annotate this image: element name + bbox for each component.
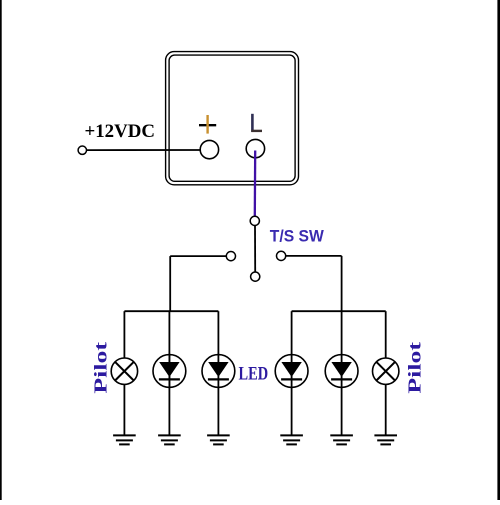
- ground G5: [330, 435, 353, 444]
- LED D3: [275, 355, 308, 388]
- wire pilot lamp DS1 lower lead: [123, 384, 125, 435]
- L terminal marking: [251, 114, 262, 132]
- wire LED D4 lead: [341, 311, 343, 435]
- switch S1 right throw contact: [277, 251, 286, 260]
- pilot lamp DS1 (circle with X): [111, 358, 137, 384]
- ground G4: [280, 435, 303, 444]
- LED D1: [153, 355, 186, 388]
- LED D4: [325, 355, 358, 388]
- + terminal marking (gold vertical, black horizontal): [199, 115, 216, 134]
- wire left throw horizontal: [170, 255, 226, 257]
- terminal L (pin circle): [246, 139, 264, 157]
- pilot lamp DS2 (circle with X): [373, 358, 399, 384]
- wire pilot lamp DS2 upper lead: [385, 311, 387, 358]
- node +12VDC input terminal (open circle): [78, 146, 86, 154]
- ground G3: [207, 435, 230, 444]
- ground G6: [374, 435, 397, 444]
- wire left bus: [124, 310, 218, 312]
- switch S1 T/S SW pole wire: [254, 225, 256, 272]
- ground G2: [158, 435, 181, 444]
- wire right throw drop: [341, 256, 343, 311]
- svg-text:Pilot: Pilot: [404, 342, 424, 394]
- svg-text:LED: LED: [239, 364, 269, 385]
- wire LED D1 lead: [168, 311, 170, 435]
- switch S1 input contact (top circle): [250, 216, 259, 225]
- wire LED D3 lead: [291, 311, 293, 435]
- switch S1 pole contact (bottom circle): [251, 272, 260, 281]
- wire L terminal to T/S SW (violet): [254, 151, 257, 217]
- wire pilot lamp DS2 lower lead: [385, 384, 387, 435]
- terminal + (pin circle): [200, 140, 218, 158]
- wire right bus: [292, 310, 386, 312]
- LED D2: [202, 355, 235, 388]
- wire LED D2 lead: [217, 311, 219, 435]
- wire pilot lamp DS1 upper lead: [123, 311, 125, 358]
- svg-text:Pilot: Pilot: [90, 342, 110, 394]
- svg-text:T/S SW: T/S SW: [270, 227, 324, 245]
- wire left throw drop: [169, 256, 171, 311]
- wire +12VDC input to + terminal: [87, 149, 201, 151]
- svg-text:+12VDC: +12VDC: [85, 121, 156, 142]
- switch S1 left throw contact: [226, 252, 235, 261]
- flasher relay box U1 (double rounded rectangle): [166, 52, 299, 185]
- ground G1: [113, 435, 136, 444]
- wire right throw horizontal: [286, 255, 342, 257]
